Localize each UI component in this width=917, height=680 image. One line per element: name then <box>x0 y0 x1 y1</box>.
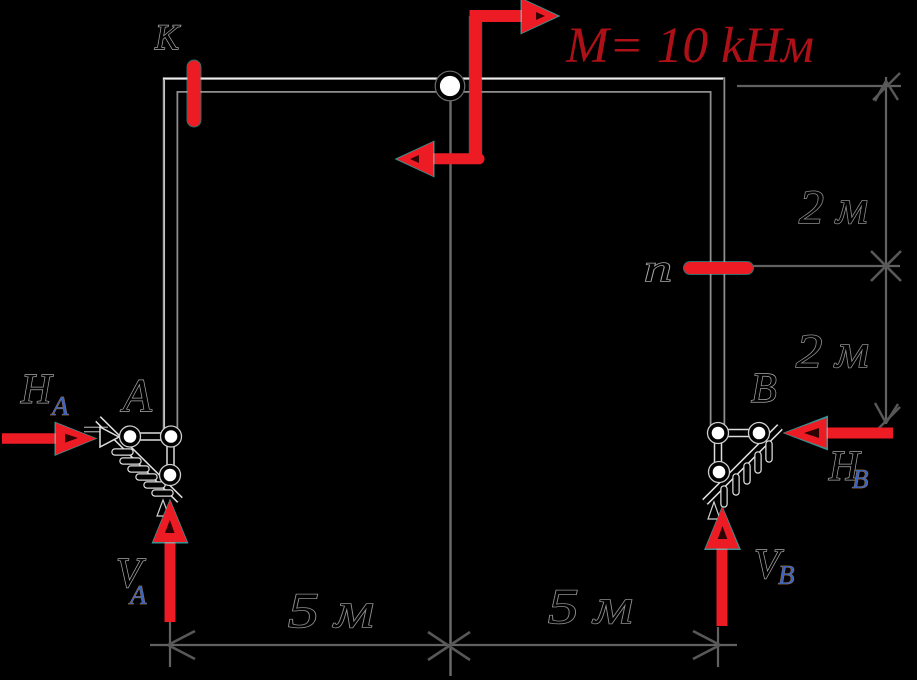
moment couple: vertical red shaft <box>469 16 483 159</box>
svg-text:5 м: 5 м <box>288 582 374 638</box>
hinge circle at top of frame <box>435 71 465 101</box>
svg-text:2 м: 2 м <box>799 181 868 234</box>
support A: link bars <box>130 437 171 476</box>
svg-text:A: A <box>50 391 69 421</box>
label 2 m (upper) <box>799 181 868 234</box>
center axis line from hinge to bottom dimension <box>449 96 451 676</box>
right dimension: middle cross tick <box>871 251 901 281</box>
label 5 m (left span) <box>288 582 374 638</box>
svg-text:n: n <box>644 248 672 290</box>
moment couple: top arrow pointing right <box>470 0 561 35</box>
bottom dimension: right extension stub <box>717 627 719 667</box>
support A: inclined surface with hatching <box>98 419 180 500</box>
svg-text:B: B <box>852 464 869 494</box>
section mark K (red bar) <box>187 67 202 120</box>
label 5 m (right span) <box>548 578 633 634</box>
label B <box>751 366 777 412</box>
reaction V_B red arrow pointing up <box>704 502 741 626</box>
svg-text:M= 10 kHм: M= 10 kHм <box>565 18 814 74</box>
svg-text:B: B <box>778 560 795 590</box>
label K <box>154 17 181 57</box>
right dimension: top tick <box>873 73 900 101</box>
label n <box>644 248 672 290</box>
support A: black arrow under red (pointing right) <box>84 427 119 447</box>
svg-text:2 м: 2 м <box>796 325 869 378</box>
section mark n (red bar on right column) <box>690 261 747 275</box>
reaction V_A red arrow pointing up <box>152 499 189 623</box>
moment value label M = 10 kHm <box>565 18 814 74</box>
svg-text:5 м: 5 м <box>548 578 633 634</box>
label A <box>120 370 152 422</box>
bottom dimension: left tick <box>168 631 195 659</box>
support B: link bars <box>718 433 759 472</box>
bottom dimension: right tick <box>693 631 720 659</box>
reaction H_B red arrow pointing left <box>783 416 894 451</box>
label V_B <box>754 542 795 590</box>
reaction H_A red arrow pointing right <box>2 422 98 457</box>
bottom dimension: center cross tick <box>428 632 470 660</box>
label H_B <box>828 444 869 494</box>
support B: inclined surface with hatching <box>705 427 780 504</box>
bottom dimension: left extension stub <box>169 622 171 667</box>
svg-text:H: H <box>20 367 54 413</box>
label V_A <box>116 551 147 610</box>
svg-text:A: A <box>128 580 147 610</box>
right dimension: vertical dimension line <box>885 77 887 424</box>
svg-text:К: К <box>154 17 181 57</box>
label H_A <box>20 367 69 421</box>
svg-text:A: A <box>120 370 152 422</box>
svg-text:B: B <box>751 366 777 412</box>
moment couple: bottom arrow pointing left <box>395 141 480 178</box>
bottom dimension line <box>150 644 737 646</box>
support B: pin circles <box>708 423 770 483</box>
frame: portal frame outline (black stroke with light halo) <box>163 79 723 430</box>
label 2 m (lower) <box>796 325 869 378</box>
right dimension: extension lines <box>737 86 901 266</box>
support A: pin circles <box>120 426 182 486</box>
support B: black arrow under red (pointing left) <box>800 423 820 443</box>
right dimension: bottom tick <box>873 403 900 434</box>
